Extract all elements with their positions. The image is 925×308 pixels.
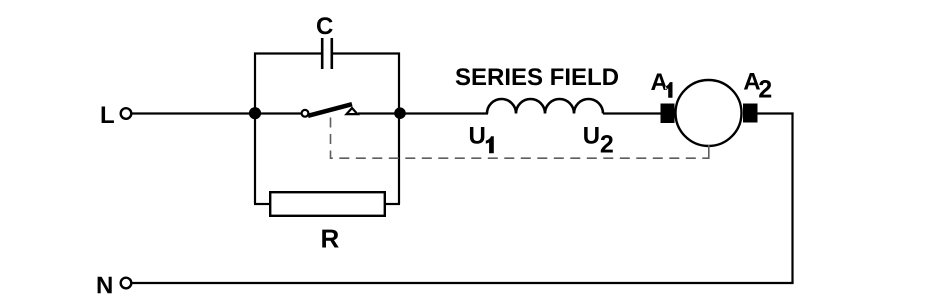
wire right vertical down — [791, 113, 793, 284]
resistor R — [270, 192, 385, 216]
linkage stub at motor bottom — [708, 145, 710, 159]
node B (junction of switch output, capacitor branch, resistor branch) — [394, 107, 406, 119]
wire coil to motor terminal A1 — [603, 112, 662, 114]
wire switch contact to node B — [358, 112, 396, 114]
label U1 — [470, 127, 494, 153]
wire left branch vertical (node A up to capacitor, down to resistor) — [254, 53, 256, 205]
label R — [322, 230, 339, 248]
wire node B to series field coil — [404, 112, 488, 114]
label U2 — [584, 127, 613, 153]
label A1 — [651, 73, 672, 97]
mechanical linkage (dashed) from switch to motor shaft — [331, 118, 709, 159]
wire bottom return to N — [132, 282, 794, 284]
switch S (centrifugal switch, shown closed-blade over contact) — [302, 104, 358, 117]
terminal A2 (brush, filled square) — [743, 104, 758, 123]
label C — [317, 17, 333, 34]
label SERIES FIELD — [456, 68, 618, 85]
label L — [102, 106, 114, 123]
wire capacitor to top right corner — [332, 52, 400, 54]
wire L to node A — [132, 112, 301, 114]
wire resistor right lead — [386, 203, 400, 205]
node A (junction of L wire, capacitor branch, resistor branch) — [249, 107, 261, 119]
label N — [98, 277, 112, 294]
wire right branch vertical (capacitor corner down to resistor) — [398, 53, 400, 205]
wire A2 to right corner — [758, 112, 794, 114]
label A2 — [744, 73, 771, 98]
capacitor C — [322, 38, 332, 69]
motor M (armature circle) — [676, 80, 742, 146]
inductor: series field winding — [487, 99, 603, 114]
terminal N — [121, 278, 132, 289]
terminal A1 (brush, filled square) — [661, 104, 675, 124]
wire resistor left lead — [254, 203, 269, 205]
terminal L — [121, 108, 132, 119]
wire top left to capacitor — [254, 52, 322, 54]
